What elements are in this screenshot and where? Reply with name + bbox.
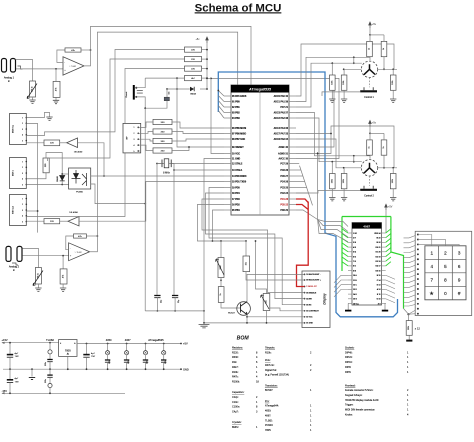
svg-text:2: 2 bbox=[22, 204, 23, 206]
wire op-amp1 output bbox=[84, 50, 91, 66]
svg-text:04 PB3: 04 PB3 bbox=[232, 117, 240, 120]
svg-text:R4k7:: R4k7: bbox=[232, 366, 239, 369]
svg-text:4067: 4067 bbox=[363, 224, 370, 228]
svg-text:1k: 1k bbox=[383, 146, 385, 148]
svg-text:DIP6:: DIP6: bbox=[345, 371, 351, 374]
resistor R5 220 bbox=[44, 140, 60, 146]
+5V Control 2 bbox=[369, 121, 372, 127]
ground rail to display gnd bbox=[204, 322, 305, 324]
wire TXD to buffer2 bbox=[79, 182, 224, 222]
svg-text:PC7 29: PC7 29 bbox=[280, 163, 288, 165]
svg-text:1k: 1k bbox=[369, 48, 371, 50]
svg-text:100k: 100k bbox=[331, 179, 333, 183]
svg-text:2 I7: 2 I7 bbox=[353, 238, 356, 240]
svg-text:-: - bbox=[70, 247, 71, 250]
svg-text:C22p:: C22p: bbox=[232, 396, 239, 399]
svg-text:-15V: -15V bbox=[2, 389, 8, 393]
wire display rw bbox=[206, 193, 305, 299]
op-amp U2A half TL082 bbox=[63, 57, 84, 75]
resistor R12 330 bbox=[153, 119, 172, 124]
svg-text:2: 2 bbox=[22, 167, 23, 169]
wire control2 net C bbox=[296, 126, 394, 168]
wire control2 trigger bbox=[296, 190, 360, 193]
svg-text:09 !RESET: 09 !RESET bbox=[232, 147, 244, 149]
wire analog1 to MCU top bus bbox=[91, 26, 252, 85]
keypad matrix column wires bbox=[418, 235, 432, 246]
svg-text:MIDI DIN female connector:: MIDI DIN female connector: bbox=[345, 409, 375, 412]
wires PC7-PC2 into select bus bbox=[296, 163, 299, 165]
svg-text:11 GND: 11 GND bbox=[232, 158, 241, 160]
resistor 100k b Control 2 bbox=[343, 168, 345, 174]
wire MIDI in pin5 to PC900 bbox=[26, 184, 68, 186]
svg-text:4067: 4067 bbox=[125, 338, 131, 342]
svg-text:PC3 25: PC3 25 bbox=[280, 187, 288, 189]
svg-text:PC5 27: PC5 27 bbox=[280, 176, 288, 178]
wire control1 trigger bbox=[322, 92, 360, 96]
wire 220 pullup to MIDI in bbox=[48, 59, 185, 161]
svg-text:R220:: R220: bbox=[232, 351, 239, 354]
svg-text:R47k lin:: R47k lin: bbox=[265, 364, 275, 367]
svg-text:03 PB2: 03 PB2 bbox=[232, 112, 240, 114]
feedback wire op-amp2 bbox=[66, 236, 74, 250]
wire display enable bbox=[202, 199, 305, 293]
svg-text:7-14 D0 - D7: 7-14 D0 - D7 bbox=[306, 285, 316, 288]
svg-text:ADC3 PA3 37: ADC3 PA3 37 bbox=[274, 111, 289, 114]
resistor R16 100k x12 pulldown bbox=[408, 314, 410, 320]
wire XTAL1 to cap bbox=[173, 173, 175, 296]
svg-text:B 15: B 15 bbox=[377, 275, 381, 277]
capacitor C5 4u7 TNT bbox=[9, 369, 11, 380]
svg-text:04 RW: 04 RW bbox=[306, 297, 312, 300]
op-amp U2B half TL082 bbox=[69, 243, 90, 261]
wire +5V to pullups bbox=[206, 43, 208, 89]
svg-text:07 PB6 MISO: 07 PB6 MISO bbox=[232, 133, 246, 135]
svg-text:TL082: TL082 bbox=[46, 338, 54, 342]
select bus gather diagonal bbox=[300, 166, 313, 206]
svg-text:18 PD4: 18 PD4 bbox=[232, 192, 240, 195]
svg-text:TL082:: TL082: bbox=[265, 419, 273, 422]
svg-text:15 G: 15 G bbox=[353, 299, 357, 301]
svg-text:PD7 21: PD7 21 bbox=[280, 107, 288, 109]
reset push button bbox=[133, 85, 135, 100]
svg-text:12 XTAL2: 12 XTAL2 bbox=[232, 162, 243, 165]
wire contrast bottom to rail bbox=[266, 311, 268, 323]
decoupling caps 100n for ICs bbox=[107, 343, 109, 345]
crystal X1 8 MHz bbox=[157, 163, 224, 165]
svg-text:ATmega8535: ATmega8535 bbox=[248, 88, 272, 92]
svg-text:10 BACKLIGHT -: 10 BACKLIGHT - bbox=[306, 273, 321, 276]
svg-text:14 PD0 RXD0: 14 PD0 RXD0 bbox=[232, 175, 247, 178]
svg-text:TNT: TNT bbox=[15, 381, 20, 383]
wire control1 net C bbox=[296, 63, 332, 107]
svg-text:PC6 28: PC6 28 bbox=[280, 170, 288, 172]
svg-text:Schema of MCU: Schema of MCU bbox=[195, 2, 282, 14]
resistor R18 15k bbox=[245, 241, 247, 256]
wire MIDI thru pin2 link down bbox=[26, 124, 37, 233]
svg-text:G 10: G 10 bbox=[377, 299, 381, 301]
svg-text:3: 3 bbox=[134, 139, 135, 141]
capacitor C8 4u7 TNT output bbox=[86, 344, 88, 355]
ground 4067 a bbox=[347, 304, 349, 311]
svg-text:I8 23: I8 23 bbox=[377, 238, 381, 240]
trimpot 500k bbox=[220, 241, 222, 258]
resistor 100k b Control 1 bbox=[343, 69, 345, 75]
svg-text:17 PD3: 17 PD3 bbox=[232, 199, 240, 201]
svg-text:-: - bbox=[64, 61, 65, 64]
svg-text:VDD 24: VDD 24 bbox=[374, 232, 380, 235]
resistor 100k a Control 2 bbox=[331, 162, 333, 174]
wire display vcc bbox=[247, 316, 305, 318]
svg-text:I14 17: I14 17 bbox=[376, 265, 381, 268]
svg-text:02 VCC: 02 VCC bbox=[306, 317, 313, 319]
potentiometer P2 47k lin bbox=[35, 268, 41, 285]
wire right net Control 1 bbox=[378, 68, 397, 70]
svg-text:0: 0 bbox=[444, 291, 447, 296]
svg-text:2: 2 bbox=[134, 133, 135, 135]
ground MIDI thru shield bbox=[26, 112, 49, 117]
svg-text:5: 5 bbox=[22, 140, 23, 142]
wire reset net down to ground rail bbox=[144, 108, 146, 203]
svg-text:R330:: R330: bbox=[232, 356, 239, 359]
svg-text:9: 9 bbox=[458, 277, 461, 282]
svg-text:100k: 100k bbox=[392, 179, 394, 183]
svg-text:100k: 100k bbox=[392, 81, 394, 85]
svg-text:ADC1 PA1 39: ADC1 PA1 39 bbox=[274, 100, 289, 103]
svg-text:PC900: PC900 bbox=[76, 191, 83, 193]
blue keypad bus bbox=[218, 72, 397, 317]
svg-text:BOM: BOM bbox=[237, 336, 250, 342]
wire PC900 out to RXD bbox=[91, 175, 224, 177]
svg-text:x 12: x 12 bbox=[415, 327, 421, 331]
resistor R4 47k feedback bbox=[74, 234, 87, 238]
wire diode to cap and reset vertical bbox=[167, 88, 190, 90]
svg-text:15 PD1 TXD0: 15 PD1 TXD0 bbox=[232, 181, 247, 183]
connector display bbox=[302, 271, 330, 328]
svg-text:ADC2 PA2 38: ADC2 PA2 38 bbox=[274, 117, 289, 120]
svg-text:1k: 1k bbox=[383, 48, 385, 50]
wire 15k to backlight+ bbox=[246, 272, 305, 280]
svg-text:C4μ7:: C4μ7: bbox=[232, 411, 239, 414]
svg-text:100k: 100k bbox=[343, 179, 345, 183]
ground pot P1 bbox=[32, 97, 34, 100]
svg-text:Capacitors:: Capacitors: bbox=[232, 391, 245, 394]
svg-text:AGND 31: AGND 31 bbox=[278, 152, 289, 155]
resistor 100k a Control 1 bbox=[331, 63, 333, 75]
svg-text:AVCC 30: AVCC 30 bbox=[278, 157, 288, 160]
wire control2 net B bbox=[296, 118, 332, 162]
resistor R7 220 bbox=[44, 219, 60, 224]
svg-text:16 PD2: 16 PD2 bbox=[232, 204, 240, 206]
svg-text:4 I5: 4 I5 bbox=[353, 246, 356, 249]
connector MIDI out bbox=[10, 195, 27, 226]
svg-text:4050:: 4050: bbox=[265, 410, 271, 413]
svg-text:5: 5 bbox=[134, 151, 135, 153]
keypad connector dots bbox=[417, 234, 419, 236]
wire reset button bottom bbox=[136, 97, 145, 108]
svg-text:4: 4 bbox=[22, 135, 23, 137]
wire MIDI in pin4 to 220 bbox=[26, 173, 46, 179]
svg-text:13 XTAL1: 13 XTAL1 bbox=[232, 169, 243, 172]
wire collector to backlight- bbox=[247, 274, 305, 301]
svg-text:22p: 22p bbox=[178, 300, 180, 303]
svg-text:6: 6 bbox=[458, 264, 461, 269]
svg-text:05 PB4: 05 PB4 bbox=[232, 209, 240, 212]
svg-text:R100k:: R100k: bbox=[232, 380, 240, 383]
svg-text:5: 5 bbox=[22, 184, 23, 186]
svg-text:+5V: +5V bbox=[183, 342, 188, 346]
wire left net1 Control 1 bbox=[332, 62, 362, 64]
svg-text:ADC6 PA6 34: ADC6 PA6 34 bbox=[274, 138, 289, 141]
IC U5 4067 bbox=[352, 223, 382, 305]
svg-text:I11 20: I11 20 bbox=[376, 252, 381, 254]
wire backlight control PB4 bbox=[213, 210, 225, 241]
resistor 100k c Control 1 bbox=[392, 69, 394, 75]
+5V rail from 7805 bbox=[77, 343, 181, 345]
wire MIDI thru signal bbox=[26, 142, 44, 144]
wire MIDI out signal bbox=[26, 220, 44, 222]
svg-text:+5V: +5V bbox=[388, 205, 393, 208]
svg-text:I15 16: I15 16 bbox=[376, 270, 381, 272]
wire PC900 ground bbox=[91, 184, 146, 204]
svg-text:Transistors:: Transistors: bbox=[265, 384, 278, 387]
svg-text:01 PB0: 01 PB0 bbox=[232, 101, 240, 103]
trigger switch Control 2 bbox=[369, 176, 371, 186]
wire 220 pullup to MIDI out bbox=[26, 69, 184, 217]
svg-text:03 CONTRAST: 03 CONTRAST bbox=[306, 310, 319, 313]
wire op-amp2 output bbox=[90, 236, 98, 252]
svg-text:2: 2 bbox=[444, 250, 447, 255]
resistor 1k b Control 2 bbox=[381, 140, 387, 155]
svg-text:D 13: D 13 bbox=[377, 285, 381, 287]
wire 10n bottom to reset ground net bbox=[145, 101, 167, 109]
svg-text:BC547:: BC547: bbox=[265, 389, 273, 392]
ground 4067 b bbox=[384, 304, 387, 311]
capacitor C2 22p bbox=[172, 295, 178, 297]
wire 220 pullup to MIDI thru bbox=[26, 50, 184, 136]
wire left net2 Control 1 bbox=[344, 68, 362, 70]
resistor R1 47k to ground bbox=[55, 68, 57, 70]
+5V rail arrow bbox=[206, 37, 209, 43]
wire VCC pin bbox=[211, 78, 339, 158]
trimpot 10k contrast bbox=[256, 241, 267, 294]
svg-text:3: 3 bbox=[458, 250, 461, 255]
svg-text:DIP8:: DIP8: bbox=[345, 366, 351, 369]
svg-text:3: 3 bbox=[22, 129, 23, 131]
svg-text:8: 8 bbox=[444, 277, 447, 282]
digital pot Control 2 bbox=[361, 160, 377, 176]
svg-text:8 I1: 8 I1 bbox=[353, 266, 356, 268]
svg-text:100n: 100n bbox=[165, 360, 167, 364]
wire jack1 to op-amp input bbox=[16, 68, 63, 70]
svg-text:100n: 100n bbox=[109, 360, 111, 364]
svg-text:Resistors:: Resistors: bbox=[232, 347, 243, 350]
resistor R13 330 bbox=[153, 129, 172, 134]
svg-text:1: 1 bbox=[22, 198, 23, 200]
wire control1 net B bbox=[296, 57, 370, 101]
svg-text:100k: 100k bbox=[343, 81, 345, 85]
optocoupler U4 PC900 bbox=[69, 168, 91, 189]
svg-text:MIDI in: MIDI in bbox=[12, 170, 14, 176]
svg-text:06 ENABLE: 06 ENABLE bbox=[306, 291, 317, 294]
svg-text:1: 1 bbox=[134, 127, 135, 129]
connector MIDI in bbox=[10, 158, 27, 189]
transistor Q1 BC547 bbox=[237, 302, 251, 316]
svg-text:100n: 100n bbox=[128, 360, 130, 364]
svg-text:ADC4 PA4 36: ADC4 PA4 36 bbox=[274, 127, 289, 130]
svg-text:4: 4 bbox=[430, 264, 433, 269]
svg-text:+15V: +15V bbox=[2, 338, 8, 342]
wire ground rail under crystal bbox=[145, 310, 204, 312]
svg-text:(e.g. Farnell 1191734): (e.g. Farnell 1191734) bbox=[265, 374, 289, 377]
wire 220 top to diode node bbox=[46, 153, 62, 175]
svg-text:MIDI thru: MIDI thru bbox=[11, 125, 14, 133]
svg-text:5: 5 bbox=[444, 264, 447, 269]
wire jack1 to pot bbox=[16, 60, 33, 82]
svg-text:Crystals:: Crystals: bbox=[232, 421, 242, 424]
wire AGND bbox=[296, 134, 331, 154]
svg-text:1N4148: 1N4148 bbox=[57, 176, 59, 182]
svg-text:R10k:: R10k: bbox=[265, 351, 272, 354]
svg-text:DIP16:: DIP16: bbox=[345, 361, 353, 364]
svg-text:Frontend:: Frontend: bbox=[345, 384, 356, 387]
svg-text:9 I0: 9 I0 bbox=[353, 270, 356, 272]
svg-text:C100n:: C100n: bbox=[232, 406, 240, 409]
diode D2 1N4148 bbox=[60, 176, 65, 181]
resistor R14 330 bbox=[153, 138, 172, 143]
+5V Control 1 bbox=[369, 22, 372, 28]
connector ISP header bbox=[123, 123, 141, 152]
wires select bus to 4067 bbox=[318, 220, 348, 227]
wire emitter to ground rail bbox=[246, 315, 248, 323]
svg-text:AREF 32: AREF 32 bbox=[279, 146, 289, 149]
ground mid rail bbox=[31, 368, 33, 370]
red wire MCU to display data bbox=[296, 199, 308, 203]
svg-text:3 I6: 3 I6 bbox=[353, 242, 356, 244]
svg-text:X 9: X 9 bbox=[378, 303, 381, 305]
keypad key grid bbox=[425, 246, 466, 300]
svg-text:10 VCC: 10 VCC bbox=[232, 153, 240, 155]
wires 4067 lower left pins to select bundle bbox=[334, 275, 348, 283]
gray fan green bus to keypad connector bbox=[404, 235, 418, 238]
svg-text:Digital Pot:: Digital Pot: bbox=[265, 369, 277, 372]
svg-text:E 11: E 11 bbox=[377, 294, 381, 296]
select bus gather vertical bbox=[317, 152, 319, 220]
wire PD6 to select bus bbox=[296, 210, 318, 220]
svg-text:1k: 1k bbox=[369, 146, 371, 148]
green fan 4067 right pins bbox=[386, 229, 391, 233]
svg-text:Knobs:: Knobs: bbox=[345, 413, 353, 416]
svg-text:35 PA5 ADC5: 35 PA5 ADC5 bbox=[232, 95, 247, 98]
wire PC900 input top bbox=[62, 173, 68, 175]
wire analog2 to MCU top bus bbox=[97, 32, 237, 236]
svg-text:DIP24:: DIP24: bbox=[345, 356, 353, 359]
resistor R2 47k feedback bbox=[65, 48, 81, 52]
svg-text:R47k:: R47k: bbox=[232, 376, 239, 379]
svg-text:7805: 7805 bbox=[65, 349, 71, 353]
connector MIDI thru bbox=[10, 114, 27, 145]
svg-text:R1k:: R1k: bbox=[232, 361, 237, 364]
svg-text:4: 4 bbox=[22, 179, 23, 181]
svg-text:1/6 4050: 1/6 4050 bbox=[74, 151, 83, 153]
svg-text:Control 2: Control 2 bbox=[364, 195, 374, 198]
svg-text:Reset: Reset bbox=[125, 91, 128, 97]
svg-text:I9 22: I9 22 bbox=[377, 242, 381, 244]
svg-text:A 12: A 12 bbox=[377, 288, 381, 291]
svg-text:Keypad 12keys:: Keypad 12keys: bbox=[345, 394, 363, 397]
wire left net2 Control 2 bbox=[344, 167, 362, 169]
svg-text:05 RS: 05 RS bbox=[306, 304, 312, 306]
capacitor C7 100n neg supply bbox=[49, 369, 51, 375]
svg-text:1k: 1k bbox=[220, 293, 222, 295]
svg-text:4067:: 4067: bbox=[265, 414, 271, 417]
svg-text:ADC7 PA7 33: ADC7 PA7 33 bbox=[274, 132, 289, 135]
svg-text:PC2 24: PC2 24 bbox=[280, 192, 288, 195]
wire ADC6 to control2 bbox=[296, 139, 344, 168]
svg-text:4: 4 bbox=[134, 145, 135, 147]
digital pot Control 1 bbox=[361, 61, 377, 77]
svg-text:Analog 2: Analog 2 bbox=[9, 265, 20, 269]
resistor 1k b Control 1 bbox=[381, 41, 387, 56]
wire PD2 to bias line bbox=[197, 205, 224, 242]
regulator U6 7805 bbox=[59, 340, 77, 357]
resistor R15 330 bbox=[153, 148, 172, 153]
capacitor C4 4u7 TNT bbox=[9, 343, 11, 355]
svg-text:Sockets:: Sockets: bbox=[345, 347, 355, 350]
svg-text:HD44780 display module 4x20:: HD44780 display module 4x20: bbox=[345, 399, 379, 402]
svg-text:PC4 26: PC4 26 bbox=[280, 180, 288, 183]
svg-text:8MHz:: 8MHz: bbox=[232, 426, 239, 429]
green channel bus around 4067 bbox=[342, 216, 391, 218]
svg-text:1 I/O: 1 I/O bbox=[353, 233, 357, 235]
IC U1 ATmega8535 bbox=[231, 85, 289, 215]
svg-text:7 I2: 7 I2 bbox=[353, 261, 356, 263]
svg-text:TNT: TNT bbox=[91, 356, 96, 358]
svg-text:15k: 15k bbox=[245, 262, 247, 265]
ground pot P2 bbox=[37, 284, 39, 288]
svg-text:100k: 100k bbox=[331, 81, 333, 85]
svg-text:PC1 23: PC1 23 bbox=[280, 199, 288, 201]
keypad assembly box bbox=[415, 231, 472, 315]
svg-text:1: 1 bbox=[22, 117, 23, 119]
svg-text:PD6 20: PD6 20 bbox=[280, 210, 288, 212]
wire left net1 Control 2 bbox=[332, 161, 362, 163]
svg-text:TNT: TNT bbox=[15, 356, 20, 358]
svg-text:1: 1 bbox=[22, 161, 23, 163]
svg-text:PC900:: PC900: bbox=[265, 424, 273, 427]
svg-text:ICs:: ICs: bbox=[265, 400, 270, 403]
buffer U3A 1/6 4050 bbox=[67, 138, 78, 148]
wire control1 net A bbox=[296, 44, 394, 96]
svg-text:I10 21: I10 21 bbox=[376, 247, 381, 249]
wire 7805 ground pin bbox=[67, 356, 69, 369]
wire reset button top bbox=[136, 78, 145, 88]
wire reset net bbox=[145, 77, 184, 79]
resistor R6 220 vertical bbox=[43, 158, 49, 173]
green fan to 4067 left pins bbox=[342, 229, 348, 233]
wires 330 resistors to MCU pins bbox=[172, 122, 224, 128]
wire contrast to display bbox=[270, 308, 305, 311]
capacitor C3 10n bbox=[166, 89, 168, 97]
svg-text:09 BACKLIGHT +: 09 BACKLIGHT + bbox=[306, 279, 321, 282]
wire +5 line to transistor bias bbox=[213, 240, 247, 242]
svg-text:08 PB7 SCK: 08 PB7 SCK bbox=[232, 139, 245, 141]
svg-text:4: 4 bbox=[22, 216, 23, 218]
svg-text:19 PD5: 19 PD5 bbox=[232, 187, 240, 189]
+5V 4067 bbox=[385, 204, 388, 210]
connector J1 Analog 1 in bbox=[2, 59, 7, 73]
ground main bbox=[199, 325, 210, 328]
svg-text:100n: 100n bbox=[45, 379, 47, 383]
